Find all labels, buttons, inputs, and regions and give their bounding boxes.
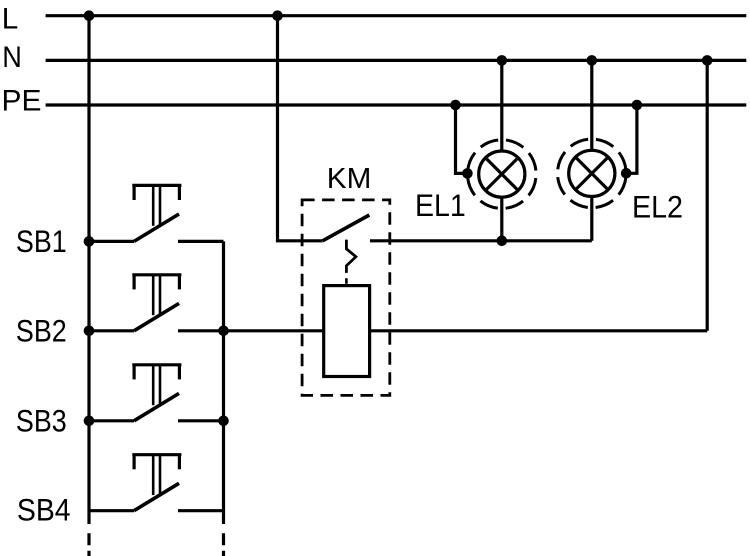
- svg-text:SB4: SB4: [17, 492, 71, 528]
- node dot SB2 right: [218, 326, 229, 337]
- wire PE line: [46, 103, 747, 106]
- svg-text:KM: KM: [327, 163, 372, 195]
- KM contact blade: [323, 215, 370, 241]
- SB1 contact blade: [134, 214, 179, 241]
- node dot SB3 right: [218, 416, 229, 427]
- node dot EL1 fixture PE: [462, 168, 473, 179]
- svg-text:N: N: [2, 41, 22, 74]
- wire L line: [46, 14, 747, 17]
- svg-text:PE: PE: [2, 84, 42, 117]
- wire EL1 top from N: [500, 60, 503, 151]
- wire EL2 bottom: [590, 196, 593, 241]
- SB1 actuator left leg: [133, 185, 136, 200]
- node dot N EL1: [497, 55, 508, 66]
- node dot SB1 left: [84, 236, 95, 247]
- KM dashed enclosure box: [302, 200, 390, 396]
- KM mechanical link spring zigzag: [346, 240, 356, 273]
- svg-text:EL1: EL1: [415, 187, 466, 223]
- wire SB1 left: [89, 240, 134, 243]
- node dot N far right: [702, 55, 713, 66]
- node dot PE tap1: [450, 100, 461, 111]
- node dot L KM feed: [272, 10, 283, 21]
- wire left bus from L down: [87, 16, 90, 524]
- svg-text:EL2: EL2: [632, 189, 683, 225]
- wire KM feed from L: [278, 16, 323, 241]
- SB1 actuator bar: [132, 184, 181, 187]
- wire coil to far right: [370, 329, 708, 332]
- SB1 stem left line: [152, 185, 155, 225]
- svg-text:SB2: SB2: [16, 312, 67, 348]
- wire PE tap to EL2 fixture: [625, 105, 637, 173]
- node dot SB2 left: [84, 326, 95, 337]
- wire far right vertical to N: [706, 60, 709, 330]
- wire EL1 bottom: [500, 197, 503, 241]
- lamp EL2: [558, 139, 627, 208]
- SB1 stem right line: [159, 185, 162, 224]
- wire SB1 right contact: [178, 240, 224, 243]
- node dot lamp bottom junction: [497, 236, 508, 247]
- pushbutton SB3: [89, 365, 224, 421]
- wire N line: [46, 59, 747, 62]
- svg-text:L: L: [2, 2, 19, 35]
- wire coil row from right bus to coil: [224, 329, 324, 332]
- lamp EL1: [468, 140, 537, 209]
- wire right bus: [222, 241, 225, 524]
- SB1 actuator right leg: [178, 185, 181, 200]
- node dot N EL2: [587, 55, 598, 66]
- wire left bus dashed continuation: [87, 533, 90, 556]
- pushbutton SB1: [89, 185, 224, 241]
- wire PE tap to EL1 fixture: [456, 105, 469, 173]
- wire KM contact output to lamps: [370, 239, 592, 242]
- KM coil: [324, 286, 370, 377]
- node dot SB3 left: [84, 416, 95, 427]
- wire EL2 top from N: [590, 60, 593, 150]
- node dot PE tap2: [632, 100, 643, 111]
- pushbutton SB4: [89, 455, 224, 511]
- svg-text:SB3: SB3: [16, 402, 67, 438]
- node dot EL2 fixture PE: [621, 168, 632, 179]
- wire right bus dashed continuation: [222, 533, 225, 556]
- svg-text:SB1: SB1: [16, 223, 67, 259]
- pushbutton SB2: [89, 275, 224, 331]
- KM mechanical link dash lower: [345, 278, 348, 284]
- node dot L left bus: [84, 10, 95, 21]
